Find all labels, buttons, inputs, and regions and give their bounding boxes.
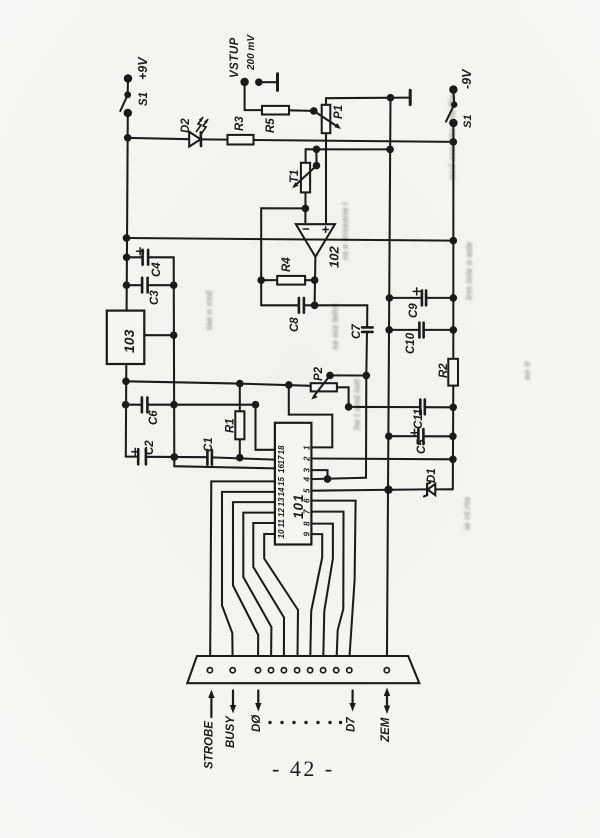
node: rail/D2 junction <box>125 135 131 141</box>
wire: IC pin 10 to connector <box>264 534 298 666</box>
label C6 <box>148 410 160 425</box>
svg-text:D2: D2 <box>180 118 192 133</box>
svg-text:C3: C3 <box>149 290 161 305</box>
wire: pin 18 riser <box>256 405 275 450</box>
capacitor C2 <box>126 448 208 464</box>
arrow ZEM (double) <box>384 688 390 715</box>
wire: op-amp output <box>314 257 317 306</box>
svg-text:6: 6 <box>303 498 312 503</box>
node: C2/C1 mid junction <box>172 454 178 460</box>
node: op-amp minus input junction <box>303 206 309 212</box>
svg-text:R2: R2 <box>438 363 450 378</box>
node: rail/C9 left junction <box>387 295 393 301</box>
node: rail/C4 junction <box>124 254 130 260</box>
svg-text:2: 2 <box>303 456 312 462</box>
svg-text:11: 11 <box>277 519 286 528</box>
svg-text:C5: C5 <box>416 439 428 454</box>
node: C9 right junction <box>451 295 457 301</box>
label R4 <box>281 257 293 272</box>
wire: pin 3 jog <box>311 470 327 479</box>
label P1 <box>333 105 345 119</box>
svg-text:BUSY: BUSY <box>225 715 237 748</box>
svg-text:tae n ssd: tae n ssd <box>204 290 214 330</box>
svg-text:C8: C8 <box>289 317 301 332</box>
label C1 <box>203 437 215 452</box>
resistor R3 <box>228 135 254 145</box>
zener diode D1 <box>424 483 453 497</box>
wire: IC pin 9 to connector <box>310 534 322 666</box>
label T1 <box>289 170 301 183</box>
wire: left +9V rail <box>126 113 128 457</box>
svg-text:3: 3 <box>303 468 312 473</box>
label ZEM <box>380 717 392 743</box>
node: R1 bottom junction <box>237 455 243 461</box>
label S1 right <box>462 115 474 128</box>
wire: IC pin 13 to connector <box>233 502 275 666</box>
svg-text:16: 16 <box>277 464 286 473</box>
svg-text:C9: C9 <box>408 303 420 318</box>
ground (top right) <box>409 90 412 104</box>
capacitor C9 <box>389 288 453 305</box>
svg-text:-9V: -9V <box>460 68 474 89</box>
label C8 <box>289 317 301 332</box>
label R3 <box>234 116 246 131</box>
regulator 103 <box>107 311 174 364</box>
node: C6 row / vertical x=174 junction <box>171 402 177 408</box>
capacitor C7 <box>362 305 373 375</box>
svg-text:C6: C6 <box>148 410 160 425</box>
label D1 <box>426 468 438 483</box>
wire: row y=383 to P2 left <box>126 381 311 386</box>
svg-text:8: 8 <box>303 521 312 526</box>
label C5 <box>416 439 428 454</box>
label +9V <box>136 56 150 80</box>
wire: secondary vertical x=174 <box>174 257 275 468</box>
label C10 <box>405 332 417 354</box>
node: C6 row right end junction <box>253 402 259 408</box>
wire: P1 wiper rail down to op-amp + input <box>325 133 327 224</box>
node: long row right end <box>451 238 457 244</box>
node: C3 right junction <box>171 282 177 288</box>
svg-text:1: 1 <box>303 445 312 450</box>
arrow STROBE (up) <box>208 690 214 718</box>
node: rail/C10 left junction <box>386 327 392 333</box>
label 102 <box>327 246 342 268</box>
svg-text:S1: S1 <box>462 115 474 128</box>
switch S1 (+9V) <box>120 75 131 116</box>
capacitor C11 <box>349 400 454 415</box>
label C4 <box>151 262 163 277</box>
svg-text:102: 102 <box>327 246 342 268</box>
wire: middle ZEM rail <box>387 98 391 666</box>
dotted separator <box>268 721 342 724</box>
label 200 mV <box>246 34 257 71</box>
LED D2 <box>189 118 208 147</box>
svg-text:R4: R4 <box>281 257 293 272</box>
node: left rail / long row junction <box>124 235 130 241</box>
label C3 <box>149 290 161 305</box>
svg-text:C10: C10 <box>405 332 417 354</box>
svg-text:4: 4 <box>303 477 312 483</box>
svg-text:R5: R5 <box>265 118 277 133</box>
wire: feedback loop left <box>261 208 305 305</box>
wire: IC pin 8 to connector <box>311 524 333 666</box>
svg-text:C1: C1 <box>203 437 215 452</box>
potentiometer P2 <box>311 373 367 400</box>
connector pin holes <box>207 668 389 673</box>
wire: branch to IC pin 1 <box>289 385 333 448</box>
wire: IC pin 7 to connector <box>311 512 343 666</box>
potentiometer P1 <box>311 105 341 133</box>
svg-text:200 mV: 200 mV <box>246 34 257 71</box>
svg-text:C2: C2 <box>144 440 156 455</box>
label C9 <box>408 303 420 318</box>
node: 103 output junction <box>171 332 177 338</box>
svg-text:lrm tele o ede: lrm tele o ede <box>464 242 474 300</box>
wire: P2 right lead down to C11 row <box>337 387 349 407</box>
node: rail/row383 junction <box>123 379 129 385</box>
node: rail/C6 junction <box>123 402 129 408</box>
label C11 <box>413 409 425 429</box>
page number <box>272 756 335 781</box>
label D7 <box>346 717 358 732</box>
svg-text:15: 15 <box>277 477 286 486</box>
switch S1 (-9V) <box>446 86 457 126</box>
node: R1 top junction <box>237 381 243 387</box>
resistor R4 <box>261 276 314 285</box>
label R5 <box>265 118 277 133</box>
svg-text:D7: D7 <box>346 717 358 732</box>
svg-text:101: 101 <box>291 493 306 519</box>
node: -9V rail / row junction <box>451 139 457 145</box>
wire: C7 down to pin4 row <box>312 376 367 480</box>
node: rail/C5 left junction <box>386 433 392 439</box>
label 101 <box>291 493 306 519</box>
svg-text:13: 13 <box>277 497 286 506</box>
svg-text:9: 9 <box>303 532 312 537</box>
wire: IC pin 11 to connector <box>253 523 284 666</box>
trimmer T1 <box>292 147 319 225</box>
node: pin3/pin4 junction <box>325 476 331 482</box>
capacitor C3 <box>127 278 174 293</box>
resistor R1 <box>235 384 244 458</box>
node: C11 right junction <box>450 405 456 411</box>
pin numbers left column <box>277 445 286 538</box>
wire: P1 top to ground bar <box>326 98 409 105</box>
svg-text:12: 12 <box>277 508 286 517</box>
node: output/R4 junction <box>312 277 318 283</box>
arrow D7 (down) <box>349 691 355 712</box>
label D2 <box>180 118 192 133</box>
svg-text:S1: S1 <box>138 92 150 106</box>
node: C10 right junction <box>451 327 457 333</box>
svg-text:+9V: +9V <box>136 56 150 80</box>
op-amp 102 <box>296 224 335 257</box>
node: T1 row right end <box>387 147 393 153</box>
svg-text:17: 17 <box>277 455 286 464</box>
svg-text:5: 5 <box>303 488 312 493</box>
label C2 <box>144 440 156 455</box>
svg-text:STROBE: STROBE <box>204 721 216 769</box>
wire: pin 2 ground row <box>311 457 453 460</box>
svg-text:eo ir: eo ir <box>522 360 532 380</box>
svg-text:se eia tehn: se eia tehn <box>330 303 340 350</box>
node: P2 lead / C11 row junction <box>346 404 352 410</box>
svg-text:10: 10 <box>277 529 286 538</box>
resistor R2 <box>448 359 458 490</box>
pin numbers right column <box>303 445 312 537</box>
wire: T1 top row <box>306 149 391 163</box>
wire: right -9V rail upper <box>452 123 454 359</box>
node: D1 row / ZEM rail junction <box>385 487 391 493</box>
wire: D2/R3 row to -9V rail <box>128 138 454 142</box>
label -9V <box>460 68 474 89</box>
capacitor C5 <box>389 429 453 444</box>
connector body (trapezoid) <box>187 656 419 683</box>
ground (input common) <box>256 74 278 91</box>
label R1 <box>225 418 237 433</box>
svg-text:14: 14 <box>277 487 286 496</box>
svg-text:C11: C11 <box>413 409 425 429</box>
wire: IC pin 15 to connector STROBE <box>210 481 275 665</box>
capacitor C4 <box>127 248 174 265</box>
svg-text:P2: P2 <box>313 366 325 381</box>
node: C7/P2 wiper junction <box>364 373 370 379</box>
svg-text:103: 103 <box>121 329 137 353</box>
capacitor C6 <box>126 397 256 412</box>
node: R4 left junction <box>258 277 264 283</box>
svg-text:ra e tnseane l: ra e tnseane l <box>340 202 350 260</box>
capacitor C8 <box>261 298 367 313</box>
label BUSY <box>225 715 237 748</box>
label R2 <box>438 363 450 378</box>
svg-text:7: 7 <box>303 509 312 514</box>
svg-text:C4: C4 <box>151 262 163 277</box>
label 103 <box>121 329 137 353</box>
capacitor C1 <box>207 450 275 465</box>
label STROBE <box>204 721 216 769</box>
node: ground row right end <box>450 457 456 463</box>
node: mid rail top junction <box>388 95 394 101</box>
wire: pin 5 / D1 row <box>311 489 426 490</box>
arrow BUSY (down) <box>230 691 236 714</box>
svg-text:he t and iott: he t and iott <box>352 378 362 430</box>
wire: IC pin 6 to connector <box>311 501 355 666</box>
IC 101 <box>275 423 312 545</box>
arrow D0 (down) <box>255 691 261 712</box>
svg-text:ie nt rto: ie nt rto <box>462 496 472 530</box>
wire: VSTUP to R5 <box>245 82 262 110</box>
node: P2-left branch junction <box>286 382 292 388</box>
label S1 left <box>138 92 150 106</box>
wire: IC pin 14 to connector <box>222 492 275 666</box>
svg-text:P1: P1 <box>333 105 345 119</box>
svg-text:R1: R1 <box>225 418 237 433</box>
svg-text:- 42 -: - 42 - <box>272 756 335 781</box>
wire: IC pin 12 to connector <box>243 513 275 666</box>
label P2 <box>313 366 325 381</box>
wire: long supply row y=240 <box>127 238 454 241</box>
node: VSTUP terminal <box>241 79 247 85</box>
node: C5 right junction <box>450 434 456 440</box>
svg-text:VSTUP: VSTUP <box>229 37 241 78</box>
svg-text:R3: R3 <box>234 116 246 131</box>
svg-text:D1: D1 <box>426 468 438 483</box>
svg-text:DØ: DØ <box>251 714 263 732</box>
node: rail/C3 junction <box>124 282 130 288</box>
svg-text:ZEM: ZEM <box>380 717 392 743</box>
label C7 <box>351 324 363 339</box>
capacitor C10 <box>389 323 453 338</box>
svg-text:18: 18 <box>277 445 286 454</box>
resistor R5 <box>262 106 314 115</box>
svg-text:T1: T1 <box>289 170 301 183</box>
label VSTUP <box>229 37 241 78</box>
label D0 <box>251 714 263 732</box>
svg-text:C7: C7 <box>351 324 363 339</box>
node: output/C8 junction <box>312 303 318 309</box>
